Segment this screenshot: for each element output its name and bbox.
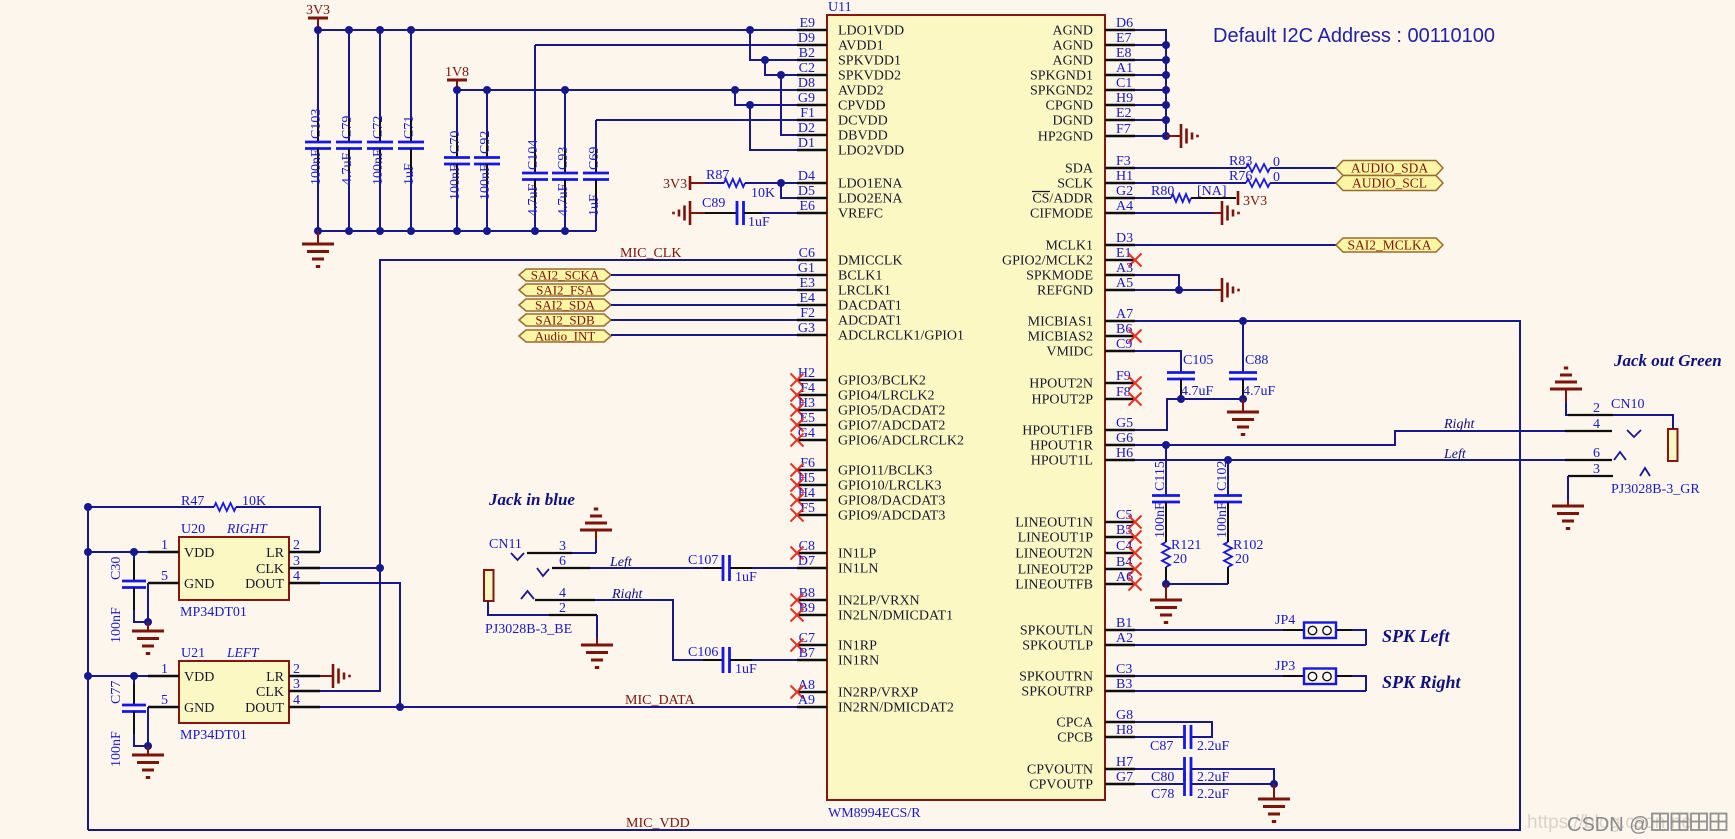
svg-text:DACDAT1: DACDAT1 <box>838 299 902 314</box>
svg-text:C88: C88 <box>1245 353 1268 368</box>
svg-text:C7: C7 <box>799 631 815 646</box>
svg-text:E3: E3 <box>799 276 815 291</box>
svg-text:SPKOUTRP: SPKOUTRP <box>1021 685 1093 700</box>
svg-text:C72: C72 <box>371 116 386 139</box>
capacitor C69 1uF <box>583 120 609 231</box>
svg-text:CSDN @: CSDN @ <box>1567 814 1650 836</box>
svg-text:100nF: 100nF <box>448 164 463 200</box>
label Left (CN11) <box>609 555 633 570</box>
pin B4 LINEOUT2P <box>1018 555 1142 578</box>
svg-text:R121: R121 <box>1171 538 1201 553</box>
wire U20 GND <box>144 583 152 626</box>
wire HPOUT1L Left net (H6) <box>1135 456 1565 464</box>
svg-text:SPK Right: SPK Right <box>1382 672 1462 692</box>
svg-text:D4: D4 <box>798 169 815 184</box>
pin 2 (CN11) <box>488 601 597 616</box>
svg-text:2: 2 <box>293 538 300 553</box>
pin 3 (CN11) <box>511 539 596 560</box>
svg-text:R76: R76 <box>1229 169 1252 184</box>
svg-text:G9: G9 <box>798 91 815 106</box>
svg-text:E9: E9 <box>799 16 815 31</box>
wire LDO2ENA (D5) <box>781 183 797 198</box>
svg-text:CPCA: CPCA <box>1056 716 1093 731</box>
svg-text:MIC_DATA: MIC_DATA <box>625 693 696 708</box>
wire SPKOUTRP (B3) <box>1135 690 1366 692</box>
ground (A5 REFGND) <box>1213 278 1239 302</box>
svg-text:DGND: DGND <box>1053 114 1093 129</box>
svg-text:6: 6 <box>1593 446 1600 461</box>
pin E5 GPIO7/ADCDAT2 <box>791 411 946 434</box>
pin A9 IN2RN/DMICDAT2 <box>797 693 954 716</box>
svg-text:4: 4 <box>1593 417 1600 432</box>
svg-text:LEFT: LEFT <box>226 645 260 660</box>
svg-text:H1: H1 <box>1116 169 1133 184</box>
svg-text:3V3: 3V3 <box>306 3 330 18</box>
capacitor C77 100nF <box>109 676 148 767</box>
capacitor C80 2.2uF <box>1135 757 1274 785</box>
wire 3V3 to B2 <box>750 30 797 64</box>
wire MCLK1 (D3) <box>1135 244 1336 246</box>
svg-text:G5: G5 <box>1116 416 1133 431</box>
svg-text:SDA: SDA <box>1065 162 1094 177</box>
capacitor C115 100nF <box>1152 445 1180 542</box>
pin G4 GPIO6/ADCLRCLK2 <box>791 426 965 449</box>
svg-text:D7: D7 <box>798 554 815 569</box>
svg-text:3: 3 <box>559 539 566 554</box>
svg-text:U20: U20 <box>181 522 205 537</box>
pin G3 ADCLRCLK1/GPIO1 <box>797 321 964 344</box>
capacitor C102 100nF <box>1214 460 1242 542</box>
svg-text:Left: Left <box>1443 447 1467 462</box>
svg-text:C106: C106 <box>688 645 718 660</box>
svg-text:U21: U21 <box>181 646 205 661</box>
pin 4 DOUT (U21) <box>245 693 320 716</box>
capacitor C107 1uF <box>590 553 797 585</box>
svg-text:100nF: 100nF <box>478 164 493 200</box>
wire 1V8 rail to pin D8 <box>457 89 797 91</box>
svg-text:GPIO4/LRCLK2: GPIO4/LRCLK2 <box>838 389 934 404</box>
svg-text:1: 1 <box>161 538 168 553</box>
svg-text:IN2RP/VRXP: IN2RP/VRXP <box>838 686 918 701</box>
ground (U21) <box>132 746 164 778</box>
net label SAI2_FSA <box>519 283 611 298</box>
svg-text:C102: C102 <box>1215 461 1230 491</box>
wire 1V8 to D1 <box>750 105 797 150</box>
svg-text:REFGND: REFGND <box>1037 284 1093 299</box>
svg-text:C9: C9 <box>1116 337 1132 352</box>
svg-text:D5: D5 <box>798 184 815 199</box>
pin G5 HPOUT1FB <box>1022 416 1135 439</box>
svg-text:GPIO7/ADCDAT2: GPIO7/ADCDAT2 <box>838 419 945 434</box>
svg-text:IN1LN: IN1LN <box>838 562 878 577</box>
pin D2 DBVDD <box>797 121 888 144</box>
wire VMIDC to C105 <box>1135 351 1181 372</box>
net label SAI2_SDA <box>519 298 611 313</box>
svg-text:C77: C77 <box>109 681 124 704</box>
svg-text:5: 5 <box>161 569 168 584</box>
svg-text:0: 0 <box>1273 155 1280 170</box>
pin 4 (CN10) <box>1565 417 1641 437</box>
wire HPOUT1R Right net (G6) <box>1135 431 1565 449</box>
svg-text:MP34DT01: MP34DT01 <box>180 605 247 620</box>
svg-text:6: 6 <box>559 554 566 569</box>
svg-text:R102: R102 <box>1233 538 1263 553</box>
svg-text:CLK: CLK <box>256 685 284 700</box>
svg-text:D8: D8 <box>798 76 815 91</box>
wire SAI2_SDA <box>611 304 797 306</box>
svg-text:AGND: AGND <box>1053 39 1093 54</box>
svg-text:Right: Right <box>1443 417 1475 432</box>
wire SAI2_SDB <box>611 319 797 321</box>
pin A1 SPKGND1 <box>1030 61 1135 84</box>
svg-text:SPKGND1: SPKGND1 <box>1030 69 1093 84</box>
svg-text:GPIO6/ADCLRCLK2: GPIO6/ADCLRCLK2 <box>838 434 964 449</box>
junction dots on 3V3 rail <box>314 26 754 34</box>
svg-text:ADCLRCLK1/GPIO1: ADCLRCLK1/GPIO1 <box>838 329 964 344</box>
svg-text:MICBIAS1: MICBIAS1 <box>1028 315 1093 330</box>
wire VDD U21 <box>84 672 148 680</box>
svg-text:GPIO3/BCLK2: GPIO3/BCLK2 <box>838 374 926 389</box>
mic U20 MP34DT01 <box>148 521 320 620</box>
svg-text:GPIO9/ADCDAT3: GPIO9/ADCDAT3 <box>838 509 945 524</box>
svg-text:A1: A1 <box>1116 61 1133 76</box>
svg-text:CPVDD: CPVDD <box>838 99 885 114</box>
text Default I2C Address <box>1213 25 1495 47</box>
pin C5 LINEOUT1N <box>1015 508 1141 531</box>
svg-text:C6: C6 <box>799 246 815 261</box>
wire U21 GND <box>144 707 152 750</box>
junction dots AGND bus <box>1162 41 1170 140</box>
wire Audio_INT <box>611 334 797 336</box>
svg-text:PJ3028B-3_GR: PJ3028B-3_GR <box>1611 482 1700 497</box>
svg-text:100nF: 100nF <box>109 607 124 643</box>
resistor R102 20 <box>1224 538 1263 584</box>
svg-text:VDD: VDD <box>184 670 214 685</box>
svg-text:F2: F2 <box>800 306 815 321</box>
pin F3 SDA <box>1065 154 1135 177</box>
svg-text:LINEOUT2N: LINEOUT2N <box>1015 547 1093 562</box>
svg-text:A6: A6 <box>1116 570 1133 585</box>
svg-text:100nF: 100nF <box>109 731 124 767</box>
wire 3V3 to C2 <box>765 60 797 79</box>
svg-text:E2: E2 <box>1116 106 1132 121</box>
net label SAI2_SDB <box>519 313 611 328</box>
svg-text:AVDD2: AVDD2 <box>838 84 884 99</box>
pin F1 DCVDD <box>797 106 888 129</box>
wire SPKMODE/REFGND <box>1135 275 1213 294</box>
capacitor C78 2.2uF <box>1135 772 1274 802</box>
svg-text:SAI2_SDB: SAI2_SDB <box>535 313 595 328</box>
svg-text:2: 2 <box>559 601 566 616</box>
svg-text:2.2uF: 2.2uF <box>1197 770 1230 785</box>
svg-text:B2: B2 <box>799 46 815 61</box>
net label MIC_CLK <box>620 246 681 261</box>
svg-text:C92: C92 <box>478 131 493 154</box>
svg-text:B3: B3 <box>1116 677 1132 692</box>
svg-text:CN11: CN11 <box>489 537 522 552</box>
svg-text:BCLK1: BCLK1 <box>838 269 882 284</box>
pin C1 SPKGND2 <box>1030 76 1135 99</box>
svg-text:A9: A9 <box>798 693 815 708</box>
junction dot mic CLK <box>376 564 384 572</box>
wire U20 DOUT to MIC_DATA <box>320 583 404 711</box>
jumper JP3 <box>1135 659 1366 691</box>
pin H4 GPIO8/DACDAT3 <box>791 486 946 509</box>
ground (A4 CIFMODE) <box>1135 201 1239 225</box>
wire 3V3 to D2 <box>781 75 797 135</box>
svg-text:IN2RN/DMICDAT2: IN2RN/DMICDAT2 <box>838 701 954 716</box>
pin A8 IN2RP/VRXP <box>791 678 919 701</box>
pin F9 HPOUT2N <box>1029 369 1141 392</box>
pin G7 CPVOUTP <box>1029 770 1135 793</box>
pin 2 (CN10) <box>1566 401 1673 429</box>
pin E2 DGND <box>1053 106 1135 129</box>
svg-text:C89: C89 <box>702 196 725 211</box>
svg-text:C78: C78 <box>1151 787 1174 802</box>
resistor R76 0 <box>1135 169 1336 187</box>
svg-text:LINEOUT1P: LINEOUT1P <box>1018 531 1094 546</box>
svg-text:Jack out Green: Jack out Green <box>1613 351 1722 370</box>
svg-text:LR: LR <box>266 670 285 685</box>
svg-text:GPIO11/BCLK3: GPIO11/BCLK3 <box>838 464 932 479</box>
net label AUDIO_SCL <box>1336 176 1443 191</box>
svg-text:CPVOUTP: CPVOUTP <box>1029 778 1093 793</box>
svg-text:G4: G4 <box>798 426 815 441</box>
net label Audio_INT <box>519 329 611 344</box>
svg-text:DMICCLK: DMICCLK <box>838 254 903 269</box>
svg-text:CLK: CLK <box>256 562 284 577</box>
pin C8 IN1LP <box>791 539 877 562</box>
junction dots on GND rail <box>314 227 569 235</box>
wire MIC_CLK <box>320 260 797 691</box>
ground (line out) <box>1150 584 1182 623</box>
svg-text:20: 20 <box>1173 552 1187 567</box>
svg-text:MP34DT01: MP34DT01 <box>180 728 247 743</box>
svg-text:C115: C115 <box>1153 461 1168 491</box>
svg-text:3: 3 <box>293 677 300 692</box>
label SPK Right <box>1382 672 1462 692</box>
svg-text:WM8994ECS/R: WM8994ECS/R <box>828 806 921 821</box>
svg-text:PJ3028B-3_BE: PJ3028B-3_BE <box>485 622 572 637</box>
wire SAI2_FSA <box>611 289 797 291</box>
svg-text:IN1RN: IN1RN <box>838 654 879 669</box>
svg-text:LINEOUT1N: LINEOUT1N <box>1015 516 1093 531</box>
resistor R121 20 <box>1162 538 1201 584</box>
pin B8 IN2LP/VRXN <box>791 586 920 609</box>
connector CN11 PJ3028B-3_BE <box>484 537 597 637</box>
svg-text:G3: G3 <box>798 321 815 336</box>
svg-text:GPIO5/DACDAT2: GPIO5/DACDAT2 <box>838 404 945 419</box>
svg-text:F1: F1 <box>800 106 815 121</box>
svg-text:B7: B7 <box>799 646 815 661</box>
pin H9 CPGND <box>1046 91 1135 114</box>
svg-text:AUDIO_SDA: AUDIO_SDA <box>1351 161 1429 176</box>
svg-text:5: 5 <box>161 693 168 708</box>
svg-text:E6: E6 <box>799 199 815 214</box>
capacitor C89 1uF <box>702 196 797 230</box>
svg-text:C103: C103 <box>309 109 324 139</box>
label Jack in blue <box>488 490 575 509</box>
svg-text:CN10: CN10 <box>1611 397 1644 412</box>
svg-text:HPOUT1R: HPOUT1R <box>1030 439 1094 454</box>
pin B5 LINEOUT1P <box>1018 523 1142 546</box>
pin 5 GND (U21) <box>148 693 214 716</box>
ground (capacitor bank) <box>302 231 334 267</box>
capacitor C87 2.2uF <box>1135 722 1230 754</box>
ground (AGND bus) <box>1166 124 1198 148</box>
power 1V8 <box>445 65 469 90</box>
pin C9 VMIDC <box>1046 337 1135 360</box>
resistor R83 0 <box>1135 154 1336 172</box>
junction dots on 1V8 rail <box>453 86 739 94</box>
label Jack out Green <box>1613 351 1722 370</box>
capacitor C103 100nF <box>305 30 331 231</box>
pin G8 CPCA <box>1056 708 1135 731</box>
pin 3 CLK (U20) <box>256 554 320 577</box>
pin H7 CPVOUTN <box>1027 755 1135 778</box>
svg-text:R47: R47 <box>181 494 204 509</box>
svg-text:1V8: 1V8 <box>445 65 469 80</box>
watermark <box>1527 812 1727 836</box>
pin D6 AGND <box>1053 16 1135 39</box>
svg-text:IN1LP: IN1LP <box>838 547 876 562</box>
resistor R47 10K <box>84 494 320 552</box>
svg-text:B1: B1 <box>1116 616 1132 631</box>
svg-text:G6: G6 <box>1116 431 1133 446</box>
wire SPKOUTLP (A2) <box>1135 644 1366 646</box>
svg-text:H7: H7 <box>1116 755 1133 770</box>
label Right (CN10) <box>1443 417 1475 432</box>
svg-text:JP4: JP4 <box>1275 613 1295 628</box>
svg-text:LDO1VDD: LDO1VDD <box>838 24 904 39</box>
capacitor C104 4.7uF <box>522 45 548 231</box>
svg-text:SPKVDD1: SPKVDD1 <box>838 54 901 69</box>
svg-text:MCLK1: MCLK1 <box>1046 239 1093 254</box>
pin E7 AGND <box>1053 31 1135 54</box>
svg-text:C80: C80 <box>1151 770 1174 785</box>
svg-text:GPIO10/LRCLK3: GPIO10/LRCLK3 <box>838 479 941 494</box>
pin C6 DMICCLK <box>797 246 903 269</box>
svg-text:F7: F7 <box>1116 122 1131 137</box>
svg-text:3V3: 3V3 <box>1243 194 1267 209</box>
svg-text:Jack in blue: Jack in blue <box>488 490 575 509</box>
svg-text:100nF: 100nF <box>1153 502 1168 538</box>
pin B6 MICBIAS2 <box>1028 322 1142 345</box>
ground (CN11 pin2) <box>581 615 613 668</box>
svg-text:SAI2_MCLKA: SAI2_MCLKA <box>1347 238 1431 253</box>
capacitor C106 1uF <box>595 600 797 677</box>
pin D8 AVDD2 <box>797 76 884 99</box>
net label MIC_DATA <box>625 693 696 708</box>
jumper JP4 <box>1135 613 1366 645</box>
svg-text:F3: F3 <box>1116 154 1131 169</box>
svg-text:LR: LR <box>266 546 285 561</box>
pin C3 SPKOUTRN <box>1019 662 1135 685</box>
pin 3 (CN10) <box>1568 462 1650 500</box>
ground (C89) <box>674 201 707 225</box>
svg-text:LDO1ENA: LDO1ENA <box>838 177 903 192</box>
pin H2 GPIO3/BCLK2 <box>791 366 926 389</box>
svg-text:A3: A3 <box>1116 261 1133 276</box>
svg-text:VDD: VDD <box>184 546 214 561</box>
label Left (CN10) <box>1443 447 1467 462</box>
pin A3 SPKMODE <box>1026 261 1135 284</box>
svg-text:3: 3 <box>1593 462 1600 477</box>
wire GND rail of capacitor bank <box>318 230 596 232</box>
wire 3V3 rail to pin E9 <box>318 29 797 31</box>
svg-text:IN2LN/DMICDAT1: IN2LN/DMICDAT1 <box>838 609 953 624</box>
net label MIC_VDD <box>626 816 690 831</box>
svg-text:U11: U11 <box>828 0 852 15</box>
svg-text:SCLK: SCLK <box>1057 177 1093 192</box>
pin E8 AGND <box>1053 46 1135 69</box>
wire SAI2_SCKA <box>611 274 797 276</box>
net label SAI2_SCKA <box>519 268 611 283</box>
svg-text:C1: C1 <box>1116 76 1132 91</box>
svg-text:G7: G7 <box>1116 770 1133 785</box>
svg-text:R87: R87 <box>706 168 729 183</box>
svg-text:E5: E5 <box>799 411 815 426</box>
pin E9 LDO1VDD <box>797 16 904 39</box>
svg-text:0: 0 <box>1273 170 1280 185</box>
power flag 3V3 at R87 <box>663 176 705 192</box>
junction dot D4/D5 <box>777 179 785 187</box>
wire DCVDD net (F1) <box>596 119 797 121</box>
wire R121/R102 junction <box>1162 580 1228 588</box>
pin B2 SPKVDD1 <box>797 46 901 69</box>
svg-text:SAI2_SCKA: SAI2_SCKA <box>531 268 600 283</box>
resistor R87 10K <box>705 168 797 201</box>
svg-text:A4: A4 <box>1116 199 1133 214</box>
capacitor C70 100nF <box>444 90 470 231</box>
svg-text:4: 4 <box>559 586 566 601</box>
svg-text:4.7uF: 4.7uF <box>340 153 355 186</box>
svg-text:C30: C30 <box>109 557 124 580</box>
capacitor C93 4.7uF <box>552 90 578 231</box>
svg-text:1uF: 1uF <box>735 662 757 677</box>
svg-text:RIGHT: RIGHT <box>226 521 268 536</box>
svg-text:C71: C71 <box>402 116 417 139</box>
svg-text:LINEOUTFB: LINEOUTFB <box>1015 578 1093 593</box>
svg-text:SPKMODE: SPKMODE <box>1026 269 1093 284</box>
pin H6 HPOUT1L <box>1031 446 1135 469</box>
svg-text:1uF: 1uF <box>735 570 757 585</box>
svg-text:G1: G1 <box>798 261 815 276</box>
pin F4 GPIO4/LRCLK2 <box>791 381 935 404</box>
svg-text:C87: C87 <box>1150 739 1173 754</box>
svg-text:CIFMODE: CIFMODE <box>1030 207 1093 222</box>
svg-text:C105: C105 <box>1183 353 1213 368</box>
pin 1 VDD (U21) <box>148 662 214 685</box>
svg-text:SPKOUTLN: SPKOUTLN <box>1020 624 1093 639</box>
pin B1 SPKOUTLN <box>1020 616 1135 639</box>
svg-text:SPKGND2: SPKGND2 <box>1030 84 1093 99</box>
svg-text:[NA]: [NA] <box>1197 184 1227 199</box>
pin B3 SPKOUTRP <box>1021 677 1135 700</box>
svg-text:MICBIAS2: MICBIAS2 <box>1028 330 1093 345</box>
wire MIC_VDD left trunk <box>87 507 89 830</box>
pin A4 CIFMODE <box>1030 199 1135 222</box>
svg-text:DBVDD: DBVDD <box>838 129 888 144</box>
svg-text:D2: D2 <box>798 121 815 136</box>
pin B9 IN2LN/DMICDAT1 <box>791 601 954 624</box>
svg-text:2.2uF: 2.2uF <box>1197 787 1230 802</box>
svg-text:R80: R80 <box>1151 184 1174 199</box>
svg-text:A2: A2 <box>1116 631 1133 646</box>
svg-text:HP2GND: HP2GND <box>1038 130 1093 145</box>
svg-text:C79: C79 <box>340 116 355 139</box>
svg-text:100nF: 100nF <box>309 149 324 185</box>
